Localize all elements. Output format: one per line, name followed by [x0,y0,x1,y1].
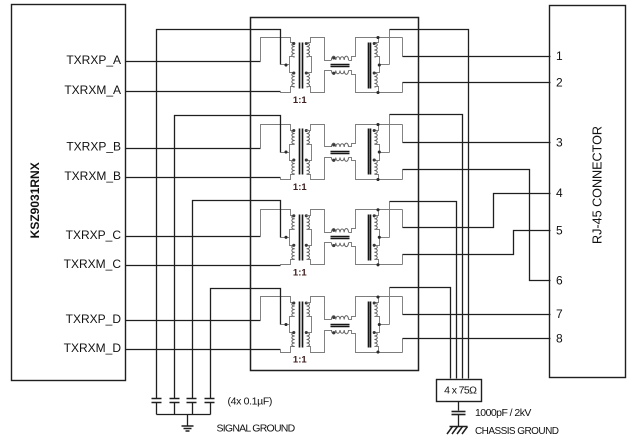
capacitor C2 0.1uF [170,399,180,415]
svg-text:KSZ9031RNX: KSZ9031RNX [28,162,42,238]
svg-text:3: 3 [556,135,563,149]
node phase dot choke bottom row D [332,331,335,334]
svg-text:1000pF / 2kV: 1000pF / 2kV [475,407,531,419]
wire choke to line-side top row B [349,125,403,147]
wire secondary top to choke row C [307,210,332,233]
wire row D bottom to RJ-45 pin [403,338,551,340]
autotransformer T2A core row A [369,43,371,89]
node phase dot secondary top row B [305,129,308,132]
svg-text:1:1: 1:1 [293,268,307,279]
node phase dot T2C bottom [373,244,376,247]
node T2C center-tap junction [378,236,381,239]
wire line-side top step row D [402,297,404,315]
transformer T1A secondary winding row A [307,43,312,87]
wire TXRXP_B from U1 to T1 primary [126,148,261,150]
wire choke to line-side bottom row C [349,243,403,265]
node phase dot secondary top row A [305,42,308,45]
node primary center-tap junction row C [284,236,287,239]
wire TXRXP_A from U1 to T1 primary [126,61,261,63]
node phase dot T2C top [373,214,376,217]
node phase dot choke bottom row A [332,72,335,75]
wire T2A center-tap riser row A [389,30,391,65]
wire T2A center-tap of row A to termination resistor pack RN1 [390,30,469,379]
node phase dot secondary top row C [305,214,308,217]
wire primary center-tap of row C to capacitor C3 [193,201,281,399]
wire row B to RJ-45 pin [403,142,551,144]
wire row D to RJ-45 pin [403,314,551,316]
node phase dot primary top row B [292,129,295,132]
svg-text:1: 1 [556,49,563,63]
transformer T1C core row C [300,215,303,261]
svg-text:6: 6 [556,273,563,287]
common-mode choke L3 row C [331,228,350,246]
svg-text:RJ-45 CONNECTOR: RJ-45 CONNECTOR [591,126,605,244]
wire line-side top step row B [402,125,404,143]
wire choke to line-side bottom row B [349,158,403,180]
autotransformer T2C core row C [369,215,371,261]
common-mode choke L1 row A [331,56,350,74]
wire choke to line-side top row A [349,38,403,61]
svg-text:8: 8 [556,332,563,346]
wire TXRXP_B step up to primary top terminal row B [261,125,295,149]
wire line-side bottom step row B [402,170,404,180]
wire row B bottom to RJ-45 pin [403,170,551,281]
wire secondary bottom to choke row B [307,158,332,180]
transformer T1C secondary winding row C [307,215,312,259]
node phase dot choke top row A [332,56,335,59]
wire signal-ground bus [157,414,211,416]
transformer T1A core row A [300,43,303,89]
wire TXRXM_D step to primary bottom terminal row D [281,347,295,353]
node phase dot T2D top [373,301,376,304]
wire TXRXM_C from U1 to T1 primary [126,265,281,267]
svg-text:1:1: 1:1 [293,95,307,106]
svg-text:TXRXP_D: TXRXP_D [66,312,122,326]
autotransformer T2B winding row B [374,125,379,180]
node junction T2C top terminal [376,208,379,211]
svg-text:2: 2 [556,75,563,89]
wire row C bottom to RJ-45 pin [403,231,551,255]
transformer T1A (1:1) primary winding row A [290,43,295,87]
node T2A center-tap junction [378,63,381,66]
node phase dot secondary bottom row C [305,244,308,247]
node phase dot primary bottom row C [292,244,295,247]
node primary center-tap junction row B [284,150,287,153]
node junction T2A bottom terminal [376,91,379,94]
node phase dot T2D bottom [373,331,376,334]
wire line-side bottom step row A [402,83,404,93]
svg-text:TXRXM_D: TXRXM_D [64,341,122,355]
wire line-side top step row C [402,210,404,228]
RJ-45 connector J1 box [550,6,626,378]
wire line-side top step row A [402,38,404,57]
wire T2A center-tap row A [380,64,390,66]
capacitor C5 1000pF/2kV [452,412,466,427]
node primary center-tap junction row A [284,63,287,66]
wire TXRXM_C step to primary bottom terminal row C [281,260,295,266]
node junction T2D top terminal [376,295,379,298]
common-mode choke L4 row D [331,316,350,334]
node junction T2B bottom terminal [376,178,379,181]
wire row C top to RJ-45 pin [403,194,551,228]
node primary center-tap junction row D [284,323,287,326]
wire row A to RJ-45 pin [403,56,551,58]
wire TXRXM_B from U1 to T1 primary [126,177,281,179]
wire secondary bottom to choke row A [307,71,332,93]
wire primary center-tap of row D to capacitor C4 [211,289,281,399]
capacitor C4 0.1uF [205,399,215,415]
wire primary center-tap row A [281,64,290,66]
svg-text:TXRXM_B: TXRXM_B [64,169,121,183]
svg-text:1:1: 1:1 [293,182,307,193]
wire TXRXP_D step up to primary top terminal row D [261,297,295,321]
wire RN1 to capacitor C5 [458,402,460,411]
wire T2C center-tap riser row C [389,202,391,238]
capacitor C1 0.1uF [152,399,162,415]
transformer T1B core row B [300,129,303,175]
node phase dot primary bottom row D [292,331,295,334]
node phase dot primary top row A [292,42,295,45]
svg-text:TXRXM_A: TXRXM_A [64,83,121,97]
svg-text:TXRXP_B: TXRXP_B [66,139,121,153]
wire row A bottom to RJ-45 pin [403,82,551,84]
wire TXRXP_C from U1 to T1 primary [126,236,261,238]
resistor pack RN1 4x75 ohm box [437,380,482,402]
autotransformer T2B core row B [369,129,371,175]
transformer T1C (1:1) primary winding row C [290,215,295,259]
node phase dot choke top row B [332,143,335,146]
node phase dot primary top row C [292,214,295,217]
svg-text:TXRXP_A: TXRXP_A [66,53,121,67]
node phase dot choke top row D [332,316,335,319]
wire T2B center-tap riser row B [389,115,391,153]
wire choke to line-side top row D [349,297,403,320]
node T2B center-tap junction [378,150,381,153]
wire T2B center-tap row B [380,152,390,154]
node junction T2B top terminal [376,123,379,126]
ground signal ground symbol [182,426,194,431]
node phase dot secondary top row D [305,301,308,304]
node phase dot secondary bottom row B [305,158,308,161]
wire line-side bottom step row D [402,339,404,353]
autotransformer T2C winding row C [374,210,379,265]
svg-text:CHASSIS GROUND: CHASSIS GROUND [475,426,559,437]
svg-text:1:1: 1:1 [293,355,307,366]
wire secondary bottom to choke row D [307,331,332,353]
node phase dot T2A top [373,42,376,45]
transformer T1B (1:1) primary winding row B [290,130,295,174]
autotransformer T2D winding row D [374,297,379,353]
transformer T1D (1:1) primary winding row D [290,303,295,347]
wire T2D center-tap of row D to termination resistor pack RN1 [390,288,451,379]
transformer T1B secondary winding row B [307,130,312,174]
svg-text:TXRXP_C: TXRXP_C [66,228,122,242]
node phase dot primary bottom row B [292,158,295,161]
wire primary center-tap of row A to capacitor C1 [157,30,281,399]
wire choke to line-side top row C [349,210,403,233]
svg-text:4: 4 [556,186,563,200]
node junction T2A top terminal [376,36,379,39]
magnetics module T1 box [251,18,419,371]
wire T2D center-tap row D [380,324,390,326]
transformer T1D core row D [300,302,303,348]
node phase dot T2B top [373,129,376,132]
wire secondary top to choke row D [307,297,332,320]
wire line-side bottom step row C [402,255,404,265]
wire choke to line-side bottom row A [349,71,403,93]
capacitor C3 0.1uF [187,399,197,415]
transformer T1D secondary winding row D [307,303,312,347]
wire TXRXM_D from U1 to T1 primary [126,349,281,351]
svg-text:5: 5 [556,223,563,237]
wire TXRXM_A step to primary bottom terminal row A [281,87,295,93]
svg-text:(4x 0.1µF): (4x 0.1µF) [228,395,273,407]
wire signal-ground stem [187,415,189,426]
node phase dot choke top row C [332,229,335,232]
wire primary center-tap row B [281,152,290,154]
node phase dot T2A bottom [373,71,376,74]
node phase dot T2B bottom [373,158,376,161]
wire TXRXP_C step up to primary top terminal row C [261,210,295,237]
node phase dot choke bottom row B [332,159,335,162]
autotransformer T2D core row D [369,302,371,348]
svg-text:TXRXM_C: TXRXM_C [64,257,122,271]
wire T2C center-tap of row C to termination resistor pack RN1 [390,202,457,379]
wire secondary top to choke row B [307,125,332,147]
wire secondary top to choke row A [307,38,332,61]
wire TXRXM_B step to primary bottom terminal row B [281,175,295,180]
wire secondary bottom to choke row C [307,243,332,265]
wire TXRXP_A step up to primary top terminal row A [261,38,295,62]
wire primary center-tap row C [281,237,290,239]
node junction T2D bottom terminal [376,350,379,353]
IC U1 KSZ9031RNX PHY box [12,5,126,381]
wire T2D center-tap riser row D [389,288,391,325]
wire TXRXM_A from U1 to T1 primary [126,91,281,93]
common-mode choke L2 row B [331,143,350,161]
svg-text:SIGNAL GROUND: SIGNAL GROUND [217,422,296,434]
svg-text:7: 7 [556,307,563,321]
wire TXRXP_D from U1 to T1 primary [126,320,261,322]
wire primary center-tap of row B to capacitor C2 [175,116,281,399]
wire primary center-tap row D [281,324,290,326]
svg-text:4 x 75Ω: 4 x 75Ω [444,385,477,397]
node phase dot secondary bottom row D [305,331,308,334]
ground chassis ground symbol [447,427,468,435]
node phase dot primary top row D [292,301,295,304]
wire choke to line-side bottom row D [349,331,403,353]
wire T2C center-tap row C [380,237,390,239]
node junction T2C bottom terminal [376,263,379,266]
autotransformer T2A winding row A [374,38,379,93]
wire T2B center-tap of row B to termination resistor pack RN1 [390,115,463,379]
node phase dot secondary bottom row A [305,71,308,74]
node phase dot primary bottom row A [292,71,295,74]
node T2D center-tap junction [378,323,381,326]
node phase dot choke bottom row C [332,244,335,247]
